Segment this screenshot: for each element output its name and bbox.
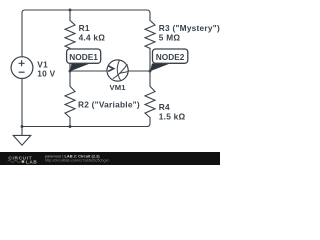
- svg-text:VM1: VM1: [110, 83, 127, 92]
- resistor R3: [145, 20, 155, 48]
- resistor R1: [65, 20, 75, 48]
- svg-text:NODE2: NODE2: [156, 52, 185, 62]
- wire R2 top lead: [69, 71, 71, 86]
- svg-text:http://circuitlab.com/c/7ab5e5: http://circuitlab.com/c/7ab5e5c5cbgxr: [45, 158, 110, 163]
- wire R1 top lead: [69, 10, 71, 20]
- wire VM1 to node2: [128, 70, 150, 72]
- wire R2 bottom lead: [69, 118, 71, 127]
- junction dot R2 bottom: [69, 125, 72, 128]
- label R3 value: [159, 23, 220, 43]
- junction dot NODE2: [149, 70, 152, 73]
- wire R3 bottom lead: [149, 48, 151, 71]
- svg-text:10 V: 10 V: [37, 69, 55, 79]
- label V1 value: [37, 60, 55, 79]
- svg-text:R1: R1: [79, 23, 90, 33]
- label R1 value: [79, 23, 106, 43]
- resistor R2: [65, 86, 75, 117]
- node NODE2 flag: [150, 49, 188, 71]
- ground symbol: [13, 127, 31, 146]
- wire top rail with rounded corners: [22, 10, 150, 57]
- label R4 value: [159, 102, 186, 122]
- svg-text:LAB: LAB: [26, 160, 37, 165]
- wire R4 top lead: [149, 71, 151, 86]
- wire V1 bottom lead: [21, 79, 23, 127]
- junction dot ground: [21, 125, 24, 128]
- node NODE1 flag: [67, 49, 101, 71]
- svg-text:4.4 kΩ: 4.4 kΩ: [79, 33, 106, 43]
- svg-text:R3 ("Mystery"): R3 ("Mystery"): [159, 23, 220, 33]
- voltage source V1: [11, 57, 33, 79]
- label R2 value: [78, 99, 140, 109]
- wire R1 bottom lead to node: [69, 48, 71, 71]
- wire node1 to VM1: [70, 70, 107, 72]
- svg-text:NODE1: NODE1: [69, 52, 98, 62]
- wire bottom rail with rounded corner: [22, 118, 150, 127]
- svg-text:R4: R4: [159, 102, 170, 112]
- resistor R4: [145, 86, 155, 117]
- logo CircuitLab: [8, 156, 38, 165]
- svg-text:R2 ("Variable"): R2 ("Variable"): [78, 99, 140, 109]
- svg-text:1.5 kΩ: 1.5 kΩ: [159, 112, 186, 122]
- label VM1 plus terminal: [108, 66, 113, 72]
- junction dot NODE1: [69, 70, 72, 73]
- junction dot top (R1/top rail): [69, 9, 72, 12]
- voltmeter VM1: [107, 60, 128, 81]
- svg-text:5 MΩ: 5 MΩ: [159, 33, 181, 43]
- footer bar: [0, 152, 220, 165]
